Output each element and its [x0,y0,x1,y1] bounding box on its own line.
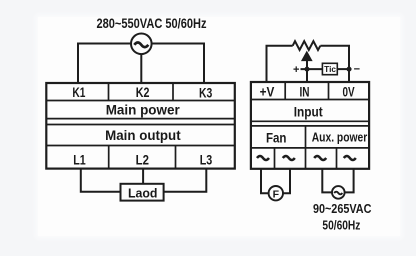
tilde terminal 1 [257,156,269,160]
svg-text:90~265VAC: 90~265VAC [313,202,372,216]
junction dot plus node [305,67,310,72]
terminal block main: separator line above Main output [46,124,235,126]
svg-text:IN: IN [300,84,310,99]
AC source G2 aux [332,186,345,199]
terminal block control: Fan Aux divider [305,126,307,148]
AC source G1 [131,34,152,55]
svg-text:Laod: Laod [128,186,158,201]
svg-text:Aux. power: Aux. power [312,129,368,144]
svg-text:L2: L2 [136,152,149,167]
fan motor M1 [269,186,283,201]
wire from AC source right to K3 [152,44,204,84]
svg-text:L3: L3 [200,153,213,168]
wire plus node to Tic [301,68,323,70]
terminal block control: row line under Input [251,120,369,122]
tilde terminal 2 [283,156,295,160]
terminal block control: outer frame [251,82,369,169]
potentiometer R1 zigzag [293,41,321,50]
wire wiper to IN [306,61,308,83]
wire R1 left to +V [267,46,293,82]
terminal block control: row line above tilde row [251,147,369,149]
svg-text:Fan: Fan [266,131,287,146]
svg-text:K3: K3 [199,85,213,100]
svg-text:−: − [354,64,360,76]
svg-text:280~550VAC 50/60Hz: 280~550VAC 50/60Hz [97,16,207,31]
tilde terminal 4 [344,156,356,160]
terminal block main: row line under K row [46,100,235,102]
terminal block control: row line under +V IN 0V [251,99,369,101]
terminal block control: separator line above Fan row [251,125,369,127]
potentiometer wiper arrow [302,52,312,61]
svg-text:Main power: Main power [106,102,181,117]
wire R1 right to 0V [320,46,349,82]
wire aux left [322,169,332,193]
svg-text:Input: Input [294,104,323,119]
wire L1 to load [81,169,121,192]
svg-text:50/60Hz: 50/60Hz [322,219,360,233]
svg-text:Tic: Tic [324,64,336,74]
terminal block main: outer frame [46,83,235,169]
Tic box [322,63,337,74]
wire Tic to minus node [337,68,351,70]
svg-text:F: F [273,189,280,201]
terminal block control: tilde row dividers [275,148,337,169]
load box [121,184,164,201]
terminal block main: row line above L row [46,145,235,147]
terminal block main: K row dividers [109,83,174,101]
wire from AC source bottom to K2 [140,54,142,83]
wire fan right [283,169,290,193]
svg-text:K2: K2 [136,85,150,100]
wire from AC source left to K1 [78,44,131,84]
svg-text:0V: 0V [342,84,354,99]
terminal block main: row line under Main power [46,118,235,120]
terminal block control: top row dividers [285,82,328,100]
wire L2 to load [142,169,144,184]
svg-text:L1: L1 [73,152,86,167]
svg-text:+V: +V [260,84,275,99]
svg-text:+: + [293,64,299,76]
wire aux right [345,169,354,193]
wire fan left [261,169,269,193]
tilde terminal 3 [314,156,326,160]
wire L3 to load [164,169,207,192]
svg-text:Main output: Main output [105,128,181,143]
junction dot minus node [347,67,352,72]
svg-text:K1: K1 [72,85,85,100]
terminal block main: L row dividers [109,146,176,169]
